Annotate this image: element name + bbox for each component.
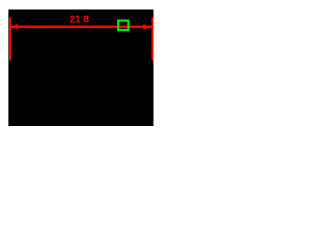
svg-text:218: 218 xyxy=(69,14,89,25)
